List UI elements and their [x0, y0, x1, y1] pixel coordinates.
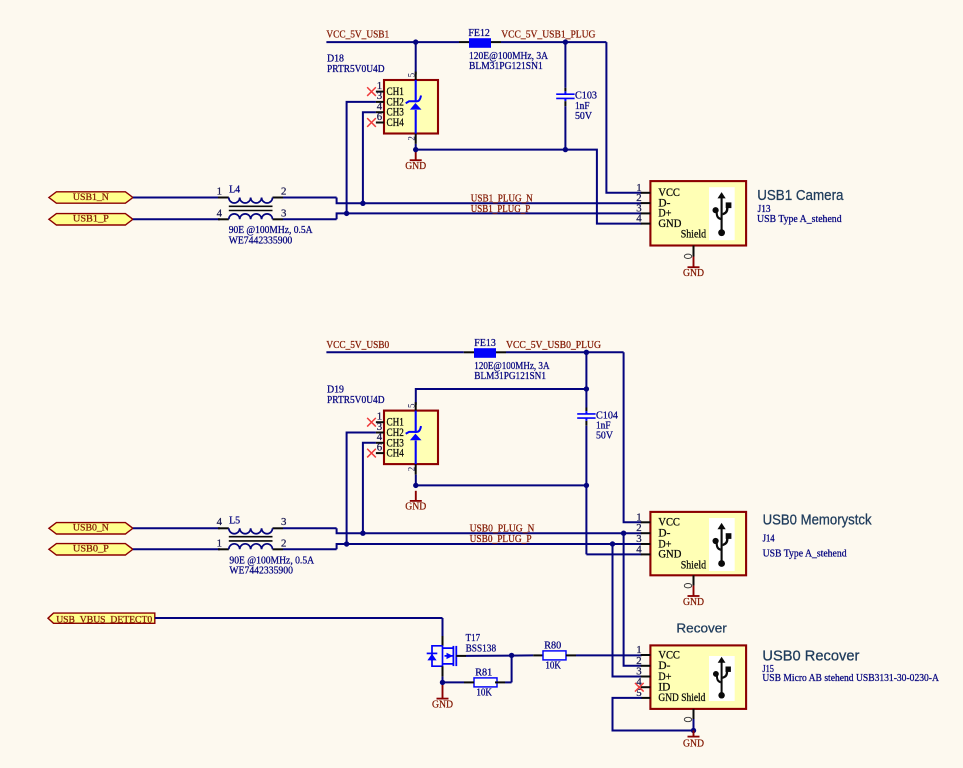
- svg-text:VCC_5V_USB1: VCC_5V_USB1: [326, 29, 389, 41]
- svg-text:4: 4: [636, 213, 642, 225]
- svg-text:10K: 10K: [476, 687, 492, 699]
- svg-text:2: 2: [406, 467, 416, 472]
- svg-text:50V: 50V: [575, 110, 592, 122]
- svg-text:USB_VBUS_DETECT0: USB_VBUS_DETECT0: [56, 614, 152, 625]
- svg-text:50V: 50V: [596, 430, 613, 442]
- svg-text:2: 2: [281, 538, 286, 550]
- svg-text:6: 6: [377, 441, 383, 453]
- svg-text:USB1 Camera: USB1 Camera: [757, 188, 844, 204]
- svg-text:Shield: Shield: [681, 559, 707, 571]
- svg-text:R81: R81: [475, 667, 492, 679]
- svg-text:CH4: CH4: [387, 448, 405, 460]
- svg-text:USB1_P: USB1_P: [73, 214, 109, 225]
- svg-text:GND: GND: [658, 549, 681, 561]
- svg-text:USB1_N: USB1_N: [73, 192, 109, 203]
- svg-text:BSS138: BSS138: [466, 642, 497, 654]
- svg-text:VCC_5V_USB1_PLUG: VCC_5V_USB1_PLUG: [501, 29, 595, 41]
- svg-text:PRTR5V0U4D: PRTR5V0U4D: [327, 394, 385, 406]
- svg-text:R80: R80: [544, 640, 561, 652]
- svg-text:FE12: FE12: [468, 27, 490, 39]
- svg-text:USB0 Memorystck: USB0 Memorystck: [763, 513, 873, 529]
- svg-text:Shield: Shield: [681, 228, 707, 240]
- svg-text:6: 6: [377, 111, 383, 123]
- svg-text:GND: GND: [405, 160, 426, 172]
- svg-text:CH4: CH4: [387, 117, 405, 129]
- svg-text:3: 3: [281, 516, 286, 528]
- svg-text:WE7442335900: WE7442335900: [229, 564, 293, 576]
- svg-text:GND: GND: [683, 267, 704, 279]
- svg-text:2: 2: [406, 136, 416, 141]
- svg-text:GND: GND: [658, 218, 681, 230]
- svg-text:5: 5: [406, 72, 416, 77]
- svg-text:1: 1: [217, 185, 222, 197]
- svg-text:4: 4: [217, 516, 223, 528]
- svg-text:2: 2: [281, 185, 286, 197]
- svg-text:L4: L4: [229, 183, 240, 195]
- svg-text:5: 5: [406, 403, 416, 408]
- svg-text:USB Micro AB stehend USB3131-3: USB Micro AB stehend USB3131-30-0230-A: [762, 672, 939, 684]
- svg-text:J14: J14: [763, 532, 775, 544]
- svg-text:GND: GND: [405, 500, 426, 512]
- svg-text:BLM31PG121SN1: BLM31PG121SN1: [469, 60, 543, 72]
- svg-text:USB0 Recover: USB0 Recover: [762, 649, 859, 665]
- svg-text:USB Type A_stehend: USB Type A_stehend: [757, 213, 842, 225]
- svg-text:10K: 10K: [545, 660, 561, 672]
- svg-text:L5: L5: [229, 515, 240, 527]
- svg-text:VCC_5V_USB0: VCC_5V_USB0: [326, 339, 389, 351]
- svg-text:Recover: Recover: [676, 620, 727, 635]
- svg-text:USB0_PLUG_P: USB0_PLUG_P: [470, 533, 532, 545]
- svg-text:GND: GND: [432, 698, 453, 710]
- svg-text:4: 4: [217, 208, 223, 220]
- svg-text:USB0_P: USB0_P: [73, 544, 109, 555]
- svg-text:3: 3: [281, 208, 286, 220]
- svg-text:FE13: FE13: [474, 337, 496, 349]
- svg-text:GND: GND: [683, 737, 704, 749]
- svg-text:USB1_PLUG_P: USB1_PLUG_P: [471, 203, 531, 215]
- svg-text:VCC_5V_USB0_PLUG: VCC_5V_USB0_PLUG: [506, 339, 601, 351]
- svg-text:WE7442335900: WE7442335900: [229, 235, 293, 247]
- svg-text:USB Type A_stehend: USB Type A_stehend: [763, 548, 847, 560]
- svg-text:GND: GND: [683, 596, 704, 608]
- svg-text:1: 1: [217, 538, 222, 550]
- svg-text:GND Shield: GND Shield: [658, 692, 705, 704]
- svg-text:4: 4: [636, 543, 642, 555]
- svg-text:BLM31PG121SN1: BLM31PG121SN1: [474, 370, 546, 382]
- svg-text:PRTR5V0U4D: PRTR5V0U4D: [327, 63, 385, 75]
- svg-text:USB0_N: USB0_N: [73, 523, 109, 534]
